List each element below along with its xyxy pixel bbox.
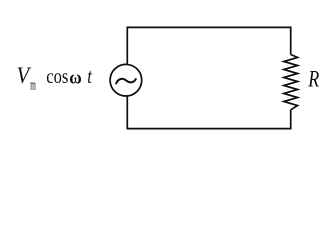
- wire top: [127, 26, 290, 28]
- wire bottom: [127, 128, 290, 130]
- svg-text:m: m: [30, 78, 36, 94]
- svg-text:R: R: [307, 67, 319, 92]
- label Vm cos wt: [17, 63, 93, 94]
- svg-text:cos: cos: [46, 66, 68, 88]
- svg-text:ω: ω: [69, 67, 82, 88]
- svg-text:t: t: [87, 64, 93, 88]
- wire left upper: [126, 27, 128, 66]
- wire left lower: [126, 95, 128, 129]
- wire right upper: [290, 26, 292, 54]
- wire right lower: [290, 110, 292, 130]
- voltage source VS: [110, 64, 142, 96]
- resistor R: [284, 55, 298, 110]
